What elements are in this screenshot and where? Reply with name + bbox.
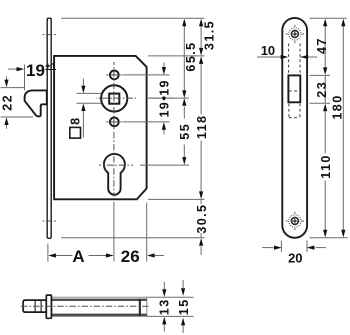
svg-text:110: 110 [319,154,333,179]
svg-text:31.5: 31.5 [203,20,217,50]
svg-text:8: 8 [69,118,83,125]
svg-text:26: 26 [121,247,140,266]
svg-text:19·19: 19·19 [157,79,171,117]
svg-text:10: 10 [261,43,275,58]
svg-text:13: 13 [157,298,171,315]
svg-text:180: 180 [331,94,345,119]
svg-text:47: 47 [315,37,329,54]
svg-text:15: 15 [177,298,191,315]
svg-text:19: 19 [26,61,45,80]
svg-text:65.5: 65.5 [184,41,198,71]
svg-text:A: A [72,247,84,266]
svg-text:±1: ±1 [45,62,56,73]
svg-text:55: 55 [178,123,192,140]
svg-text:23: 23 [315,81,329,98]
svg-text:118: 118 [195,115,209,140]
svg-text:22: 22 [1,94,15,111]
svg-text:30.5: 30.5 [195,204,209,234]
svg-text:20: 20 [288,250,302,265]
